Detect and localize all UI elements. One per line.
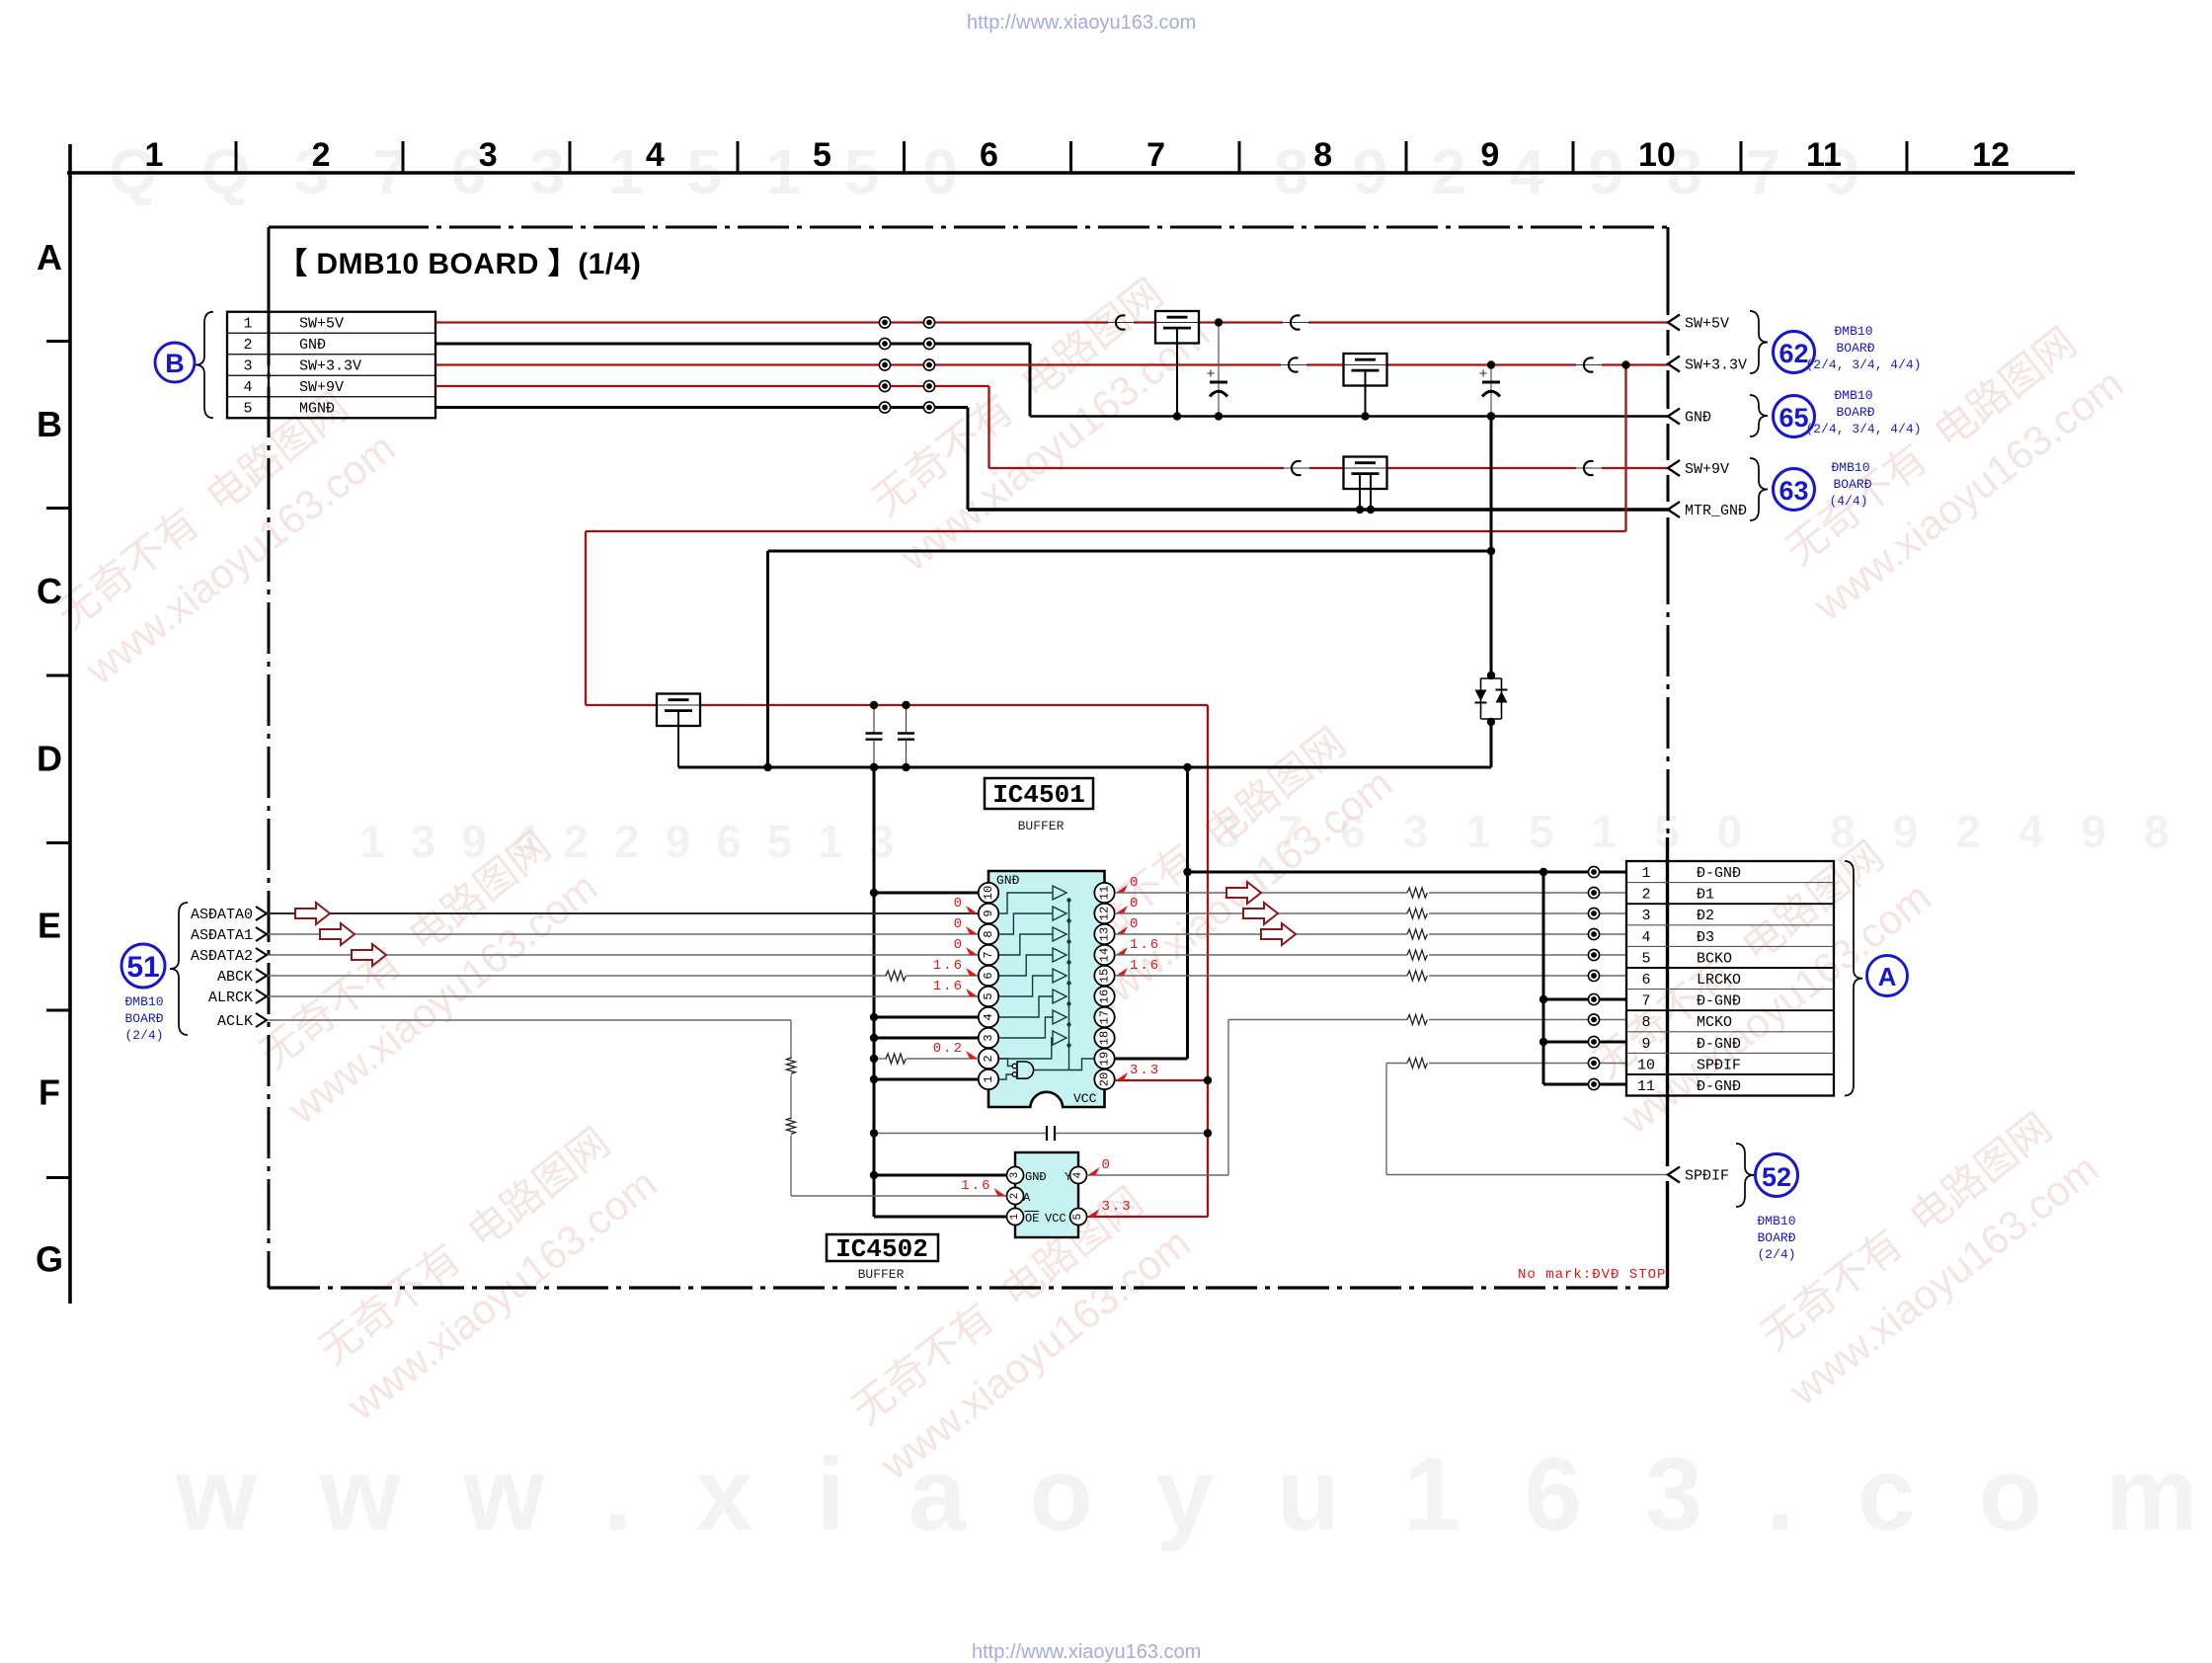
svg-text:SW+9V: SW+9V: [299, 379, 344, 396]
svg-text:http://www.xiaoyu163.com: http://www.xiaoyu163.com: [967, 12, 1196, 34]
wire MGND / MTR_GND: [435, 408, 1668, 511]
svg-text:BOARĐ: BOARĐ: [1833, 477, 1871, 492]
IC4502 pins: [1007, 1167, 1087, 1226]
svg-text:0: 0: [954, 896, 964, 911]
svg-text:1.6: 1.6: [933, 979, 964, 994]
capacitor electrolytic SW+5V to GND: [1206, 318, 1227, 420]
svg-text:4: 4: [646, 136, 665, 174]
svg-text:9: 9: [1641, 1036, 1650, 1053]
svg-text:17: 17: [1098, 1010, 1112, 1024]
svg-text:SW+3.3V: SW+3.3V: [299, 358, 361, 375]
capacitor ceramic 3.3V-GND: [866, 701, 883, 771]
ferrite bead on SW+5V: [1107, 322, 1135, 324]
svg-text:(4/4): (4/4): [1829, 494, 1867, 509]
svg-text:5: 5: [1641, 950, 1650, 967]
connector A circle: [1867, 956, 1908, 996]
svg-text:1.6: 1.6: [1130, 937, 1160, 953]
capacitor ceramic 3.3V-GND: [898, 701, 914, 771]
wire IC4502 Y output to MCKO: [1087, 1020, 1627, 1176]
resistor on BCKO: [1407, 950, 1427, 960]
wire GND bus to IC4501 pin19: [1115, 763, 1192, 1059]
svg-text:11: 11: [1806, 136, 1842, 174]
svg-text:B: B: [37, 404, 62, 444]
hollow arrow on ASDATA1: [320, 923, 355, 945]
svg-text:0: 0: [954, 937, 964, 953]
svg-text:MCKO: MCKO: [1697, 1014, 1732, 1031]
svg-text:7: 7: [1146, 136, 1165, 174]
resistor on LRCKO: [1407, 971, 1427, 981]
terminal 52 text: [1757, 1214, 1795, 1262]
svg-text:11: 11: [1637, 1078, 1655, 1095]
wire LRCKO: [1115, 975, 1626, 977]
svg-text:BUFFER: BUFFER: [1018, 819, 1065, 833]
svg-text:4: 4: [982, 1013, 995, 1020]
resistor on D3: [1407, 929, 1427, 939]
svg-text:2: 2: [312, 136, 331, 174]
svg-text:MGNĐ: MGNĐ: [299, 401, 335, 418]
svg-text:14: 14: [1098, 948, 1112, 962]
svg-text:+: +: [1478, 366, 1487, 383]
wire 3.3V rail to ICs: [586, 360, 1630, 1217]
svg-text:9: 9: [982, 910, 995, 916]
wire D1: [1115, 892, 1626, 894]
terminal 51 brace: [170, 903, 188, 1035]
wire ASDATA1: [268, 933, 979, 935]
svg-text:5: 5: [243, 401, 252, 418]
IC4501 pin labels GND VCC: [996, 873, 1097, 1106]
svg-text:4: 4: [243, 379, 252, 396]
svg-text:BOARĐ: BOARĐ: [1836, 341, 1874, 356]
svg-text:0: 0: [1130, 916, 1140, 932]
svg-text:BCKO: BCKO: [1697, 950, 1732, 967]
ferrite bead on SW+3.3V: [1575, 364, 1603, 366]
wire D-GND row7: [1543, 998, 1626, 1001]
svg-text:SW+9V: SW+9V: [1685, 461, 1729, 478]
svg-text:No mark:ĐVĐ STOP: No mark:ĐVĐ STOP: [1518, 1267, 1666, 1283]
svg-text:2: 2: [243, 337, 252, 354]
svg-text:1.6: 1.6: [1130, 958, 1160, 974]
wire ACLK to IC4502: [268, 1020, 1006, 1196]
svg-text:F: F: [39, 1072, 60, 1113]
svg-text:3: 3: [479, 136, 498, 174]
svg-text:SPĐIF: SPĐIF: [1697, 1057, 1741, 1073]
svg-text:ALRCK: ALRCK: [208, 990, 253, 1006]
svg-text:0: 0: [1130, 875, 1140, 891]
terminal 65 text: [1805, 388, 1921, 436]
svg-text:10: 10: [982, 886, 995, 900]
svg-text:12: 12: [1972, 136, 2010, 174]
svg-text:Đ-GNĐ: Đ-GNĐ: [1697, 1036, 1741, 1053]
wire D2: [1115, 912, 1626, 914]
IC4502 buffer body: [1015, 1152, 1078, 1237]
svg-text:(2/4): (2/4): [1757, 1247, 1795, 1262]
svg-text:6: 6: [980, 136, 998, 174]
vias on connector A rows: [1588, 866, 1599, 1089]
svg-text:2: 2: [1009, 1193, 1021, 1200]
svg-text:8: 8: [1313, 136, 1332, 174]
op-amp U IC4501 buffer body: [988, 871, 1105, 1107]
IC4501 internal enable gate: [999, 1059, 1094, 1079]
svg-text:Đ1: Đ1: [1697, 887, 1714, 904]
svg-text:www.xiaoyu163.com: www.xiaoyu163.com: [175, 1437, 2212, 1552]
hollow arrow on ASDATA2: [352, 944, 386, 966]
svg-text:GNĐ: GNĐ: [1685, 410, 1711, 427]
wire SW+5V: [435, 321, 1668, 323]
terminal 51 text DMB10 BOARD (2/4): [124, 994, 163, 1043]
resistor on IC4501 pin2 line: [886, 1054, 906, 1064]
svg-text:A: A: [1023, 1191, 1031, 1205]
IC4502 pin labels: [1023, 1170, 1071, 1226]
svg-text:BOARĐ: BOARĐ: [1757, 1230, 1795, 1245]
terminal 65 circle: [1774, 396, 1815, 437]
connector B table: [227, 312, 435, 419]
resistor on D2: [1407, 909, 1427, 918]
svg-text:8: 8: [1641, 1014, 1650, 1031]
svg-text:10: 10: [1637, 1057, 1655, 1073]
svg-text:3: 3: [1009, 1172, 1021, 1179]
svg-text:63: 63: [1778, 476, 1808, 506]
wire ALRCK: [268, 995, 979, 997]
wire to IC4501 pin2 via resistor: [870, 1055, 979, 1063]
wire GND to IC4501 pin10: [870, 889, 979, 897]
svg-text:SW+5V: SW+5V: [1685, 316, 1729, 333]
test value IC4501 pin20: [1116, 1072, 1128, 1080]
svg-text:4: 4: [1641, 929, 1650, 946]
svg-text:Đ2: Đ2: [1697, 908, 1714, 924]
test values IC4501 left pins: [933, 896, 978, 1059]
svg-text:C: C: [37, 571, 62, 611]
svg-text:D: D: [37, 738, 62, 778]
wire D3: [1115, 933, 1626, 935]
svg-text:SW+3.3V: SW+3.3V: [1685, 357, 1747, 374]
resistor on ACLK line: [787, 1058, 796, 1073]
svg-text:GNĐ: GNĐ: [299, 337, 326, 354]
svg-text:19: 19: [1098, 1052, 1112, 1066]
svg-text:3: 3: [243, 358, 252, 375]
wire GND to IC4501 pin3: [870, 1034, 979, 1042]
svg-text:1: 1: [1641, 865, 1650, 882]
IC4502 label box: [827, 1234, 938, 1264]
resistor on SPDIF: [1407, 1059, 1427, 1069]
wire D-GND row9: [1543, 1041, 1626, 1044]
wire D-GND row11: [1543, 1083, 1626, 1086]
svg-text:【 DMB10 BOARD 】(1/4): 【 DMB10 BOARD 】(1/4): [277, 248, 641, 280]
capacitor (EMI filter) on 3.3V rail: [657, 694, 700, 768]
svg-text:VCC: VCC: [1045, 1212, 1066, 1226]
wire SW+3.3V: [435, 363, 1668, 365]
svg-text:5: 5: [1072, 1214, 1084, 1221]
svg-text:52: 52: [1762, 1162, 1791, 1192]
svg-text:0: 0: [954, 916, 964, 932]
test values IC4501 right pins: [1116, 875, 1160, 976]
svg-text:3: 3: [1641, 908, 1650, 924]
svg-text:BOARĐ: BOARĐ: [1836, 405, 1874, 420]
diode pair (back-to-back) on GND branch: [1475, 672, 1508, 726]
test values IC4502: [961, 1157, 1132, 1217]
terminal MTR_GND: [1668, 502, 1680, 517]
connector A table: [1626, 861, 1834, 1096]
svg-text:Đ-GNĐ: Đ-GNĐ: [1697, 1078, 1741, 1095]
svg-text:ĐMB10: ĐMB10: [124, 994, 163, 1009]
svg-text:13: 13: [1098, 927, 1112, 941]
ferrite bead on SW+9V: [1283, 467, 1310, 469]
terminal 63 circle: [1774, 469, 1815, 511]
svg-text:18: 18: [1098, 1031, 1112, 1045]
resistor on MCKO line: [1407, 1015, 1427, 1025]
svg-text:IC4501: IC4501: [992, 780, 1085, 810]
terminal SPDIF out: [1668, 1167, 1680, 1183]
wire BCKO: [1115, 954, 1626, 956]
svg-text:1.6: 1.6: [933, 958, 964, 974]
svg-text:(2/4, 3/4, 4/4): (2/4, 3/4, 4/4): [1805, 422, 1921, 436]
terminal 51 circle: [121, 944, 165, 988]
IC4501 pins: [979, 883, 1115, 1089]
terminal 63 text: [1829, 460, 1871, 509]
svg-text:0.2: 0.2: [933, 1041, 964, 1057]
resistor on ABCK: [886, 971, 906, 981]
DMB10 board boundary (dash-dot border): [269, 227, 1668, 1288]
svg-text:Đ3: Đ3: [1697, 929, 1714, 946]
svg-text:ASĐATA1: ASĐATA1: [191, 927, 253, 944]
svg-text:0: 0: [1130, 896, 1140, 911]
svg-text:E: E: [38, 905, 61, 945]
svg-text:7: 7: [982, 951, 995, 958]
resistor on D1: [1407, 888, 1427, 898]
svg-text:1.6: 1.6: [961, 1178, 991, 1194]
hollow arrow on ASDATA0: [295, 903, 330, 924]
svg-text:20: 20: [1098, 1072, 1112, 1086]
capacitor electrolytic SW+3.3V to GND: [1478, 360, 1500, 420]
svg-text:1: 1: [145, 136, 164, 174]
terminal 65 brace: [1750, 395, 1768, 436]
terminal 52 brace: [1736, 1144, 1754, 1207]
wire ASDATA0: [268, 912, 979, 914]
svg-text:OE: OE: [1025, 1212, 1039, 1226]
wire D-GND row1: [1183, 868, 1626, 876]
svg-text:(2/4): (2/4): [124, 1028, 163, 1043]
wire VCC to IC4502 pin5: [1087, 1216, 1209, 1218]
svg-text:13942296513: 13942296513: [359, 816, 919, 867]
svg-text:1: 1: [982, 1075, 995, 1082]
svg-text:SW+5V: SW+5V: [299, 316, 344, 333]
wire VCC to IC4501 pin20: [1115, 1076, 1212, 1084]
connector B brace: [196, 312, 213, 419]
svg-text:(2/4, 3/4, 4/4): (2/4, 3/4, 4/4): [1805, 357, 1921, 372]
wire GND vertical to IC4501 pins: [870, 763, 878, 1217]
svg-text:LRCKO: LRCKO: [1697, 972, 1741, 989]
terminal GND: [1668, 409, 1680, 425]
ferrite bead on SW+9V: [1575, 467, 1603, 469]
capacitor (EMI filter) on SW+5V: [1155, 311, 1199, 417]
svg-text:B: B: [165, 349, 185, 378]
capacitor series on 3.3V decoupling line: [870, 1126, 1212, 1141]
svg-text:3: 3: [982, 1034, 995, 1041]
terminal 63 brace: [1750, 458, 1768, 520]
svg-text:+: +: [1206, 366, 1215, 383]
vias on connector B wires: [879, 317, 934, 413]
svg-text:ĐMB10: ĐMB10: [1757, 1214, 1795, 1228]
wire ASDATA2: [268, 954, 979, 956]
svg-text:IC4502: IC4502: [835, 1234, 928, 1264]
svg-text:SPĐIF: SPĐIF: [1685, 1168, 1729, 1185]
svg-text:6: 6: [1641, 972, 1650, 989]
svg-text:A: A: [1878, 962, 1897, 991]
svg-text:16: 16: [1098, 990, 1112, 1003]
svg-text:GNĐ: GNĐ: [1025, 1170, 1047, 1184]
svg-text:ĐMB10: ĐMB10: [1834, 324, 1872, 339]
svg-text:1: 1: [1009, 1213, 1021, 1220]
IC4501 internal buffers: [998, 886, 1071, 1070]
wire SPDIF: [1386, 1064, 1668, 1175]
svg-text:9: 9: [1480, 136, 1499, 174]
svg-text:GNĐ: GNĐ: [996, 873, 1020, 888]
svg-text:G: G: [36, 1239, 63, 1280]
svg-text:1: 1: [243, 316, 252, 333]
svg-text:ASĐATA2: ASĐATA2: [191, 948, 253, 965]
svg-text:2: 2: [982, 1055, 995, 1062]
wire GND to IC4501 pin4: [870, 1013, 979, 1021]
ferrite bead on SW+5V: [1282, 322, 1309, 324]
hollow arrow on D3: [1261, 923, 1296, 945]
hollow arrow on D1: [1226, 882, 1261, 904]
terminal SW+5V: [1668, 315, 1680, 331]
svg-text:51: 51: [126, 951, 159, 984]
svg-text:7: 7: [1641, 993, 1650, 1010]
svg-text:11: 11: [1098, 886, 1112, 900]
svg-text:6: 6: [982, 972, 995, 979]
wire GND to IC4502 pin1 (OE): [874, 1216, 1007, 1219]
svg-text:BUFFER: BUFFER: [858, 1267, 905, 1282]
svg-text:A: A: [37, 237, 62, 277]
wire D-GND bus vertical: [1540, 872, 1547, 1084]
svg-text:http://www.xiaoyu163.com: http://www.xiaoyu163.com: [972, 1641, 1201, 1663]
wire GND to IC4502 pin3: [870, 1171, 1007, 1179]
ferrite bead on SW+3.3V: [1280, 364, 1307, 366]
capacitor (EMI filter) on SW+9V: [1344, 457, 1387, 511]
svg-text:12: 12: [1098, 907, 1112, 920]
terminal SW+3.3V: [1668, 356, 1680, 372]
svg-text:62: 62: [1778, 339, 1808, 368]
svg-text:MTR_GNĐ: MTR_GNĐ: [1685, 503, 1747, 519]
terminal 62 circle: [1774, 332, 1815, 373]
junction dots on GND line: [1173, 412, 1375, 514]
IC4501 label box: [985, 778, 1093, 810]
wire GND branch to diodes and IC ground bus: [678, 412, 1495, 771]
svg-text:Đ-GNĐ: Đ-GNĐ: [1697, 865, 1741, 882]
resistor on ACLK line: [787, 1118, 796, 1134]
terminal 62 text: [1805, 324, 1921, 372]
svg-text:ĐMB10: ĐMB10: [1831, 460, 1869, 475]
svg-text:ASĐATA0: ASĐATA0: [191, 907, 253, 923]
svg-text:5: 5: [982, 992, 995, 999]
hollow arrow on D2: [1243, 903, 1278, 924]
svg-text:ĐMB10: ĐMB10: [1834, 388, 1872, 403]
terminal 62 brace: [1750, 311, 1768, 373]
wire GND: [435, 344, 1668, 417]
wire SW+9V: [435, 386, 1668, 468]
svg-text:VCC: VCC: [1073, 1091, 1097, 1106]
wire ABCK: [268, 975, 979, 977]
terminal SW+9V: [1668, 460, 1680, 476]
connector A brace: [1845, 861, 1862, 1096]
svg-text:5: 5: [813, 136, 831, 174]
svg-text:4: 4: [1072, 1171, 1084, 1178]
svg-text:10: 10: [1638, 136, 1676, 174]
svg-text:3.3: 3.3: [1102, 1199, 1133, 1215]
svg-text:Đ-GNĐ: Đ-GNĐ: [1697, 993, 1741, 1010]
wire GND to IC4501 pin1: [870, 1075, 979, 1083]
svg-text:65: 65: [1778, 403, 1808, 433]
svg-text:ACLK: ACLK: [217, 1013, 253, 1030]
svg-text:BOARĐ: BOARĐ: [124, 1011, 163, 1026]
svg-text:2: 2: [1641, 887, 1650, 904]
terminal 52 circle: [1756, 1154, 1798, 1197]
connector B circle: [155, 343, 195, 382]
svg-text:ABCK: ABCK: [217, 969, 253, 986]
svg-text:3.3: 3.3: [1130, 1063, 1160, 1078]
capacitor (EMI filter) on SW+3.3V: [1344, 354, 1387, 417]
svg-text:8: 8: [982, 930, 995, 937]
svg-text:15: 15: [1098, 969, 1112, 983]
svg-text:0: 0: [1102, 1157, 1112, 1173]
